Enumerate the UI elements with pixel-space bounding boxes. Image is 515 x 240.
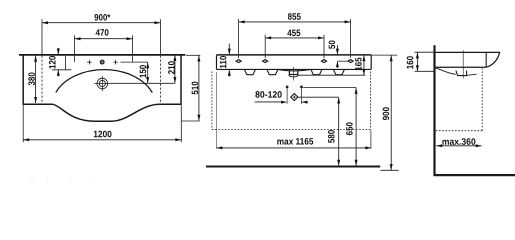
dim 470 extension lines xyxy=(74,35,76,62)
dim 855 extension lines xyxy=(238,19,240,58)
furniture unit dashed outline xyxy=(211,72,213,130)
dim 380 xyxy=(35,56,37,103)
optional faucet hole cross right xyxy=(113,61,117,63)
dim 900 xyxy=(372,54,398,56)
front view: washbasin body xyxy=(217,54,372,56)
dim 455 extension lines xyxy=(264,35,266,58)
underside trapezoid legs xyxy=(245,70,256,75)
max.360 reference dotted lines xyxy=(481,68,483,131)
dim 80-120 label and arrows xyxy=(255,91,281,98)
dim 470 xyxy=(75,38,133,40)
dim 165 xyxy=(363,55,365,75)
bowl underside curve xyxy=(278,69,311,71)
underside profile (side) xyxy=(436,68,456,75)
basin bowl arc (plan) xyxy=(56,70,152,93)
dim 650 leader xyxy=(303,86,356,88)
dim 150 xyxy=(121,61,148,63)
drain centerline (side) xyxy=(462,50,464,78)
dim 120 xyxy=(57,48,59,54)
drain symbol xyxy=(97,78,108,89)
floor line (front view) xyxy=(206,165,380,167)
drain box (front) xyxy=(289,70,297,74)
floor line (side view) xyxy=(433,174,515,176)
dim max.360 xyxy=(436,145,481,147)
dim 1200 xyxy=(22,105,24,143)
dim 50 xyxy=(336,45,338,54)
dim 160 xyxy=(415,51,434,53)
dim 900* extension lines (dashed over basin) xyxy=(41,19,43,54)
trap curve under drain xyxy=(289,75,298,77)
drain box (side) xyxy=(456,71,467,76)
mounting hole symbol 80-120 xyxy=(291,94,298,101)
centerline xyxy=(293,67,295,81)
mounting hole diamonds xyxy=(236,60,241,63)
basin outline (plan) xyxy=(23,55,181,121)
dim 855 xyxy=(239,21,351,23)
dim 900* xyxy=(42,22,160,24)
faint cropped footer text xyxy=(23,178,123,188)
wire xyxy=(19,54,185,56)
dim max 1165 xyxy=(215,72,217,149)
dim 580 leader xyxy=(297,96,338,98)
dim 210 xyxy=(174,55,176,83)
wall line (side view) xyxy=(433,45,435,174)
dim 110 xyxy=(228,44,230,55)
fixing bolt dots and centerlines xyxy=(286,86,289,89)
basin side profile xyxy=(436,52,500,67)
optional faucet hole cross left xyxy=(87,61,91,63)
dim 455 xyxy=(265,37,324,39)
faucet hole symbol xyxy=(100,60,105,65)
dim 510 xyxy=(186,54,200,56)
